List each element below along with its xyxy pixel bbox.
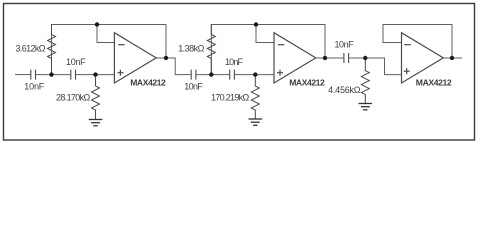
node C junction [209,72,213,76]
op-amp U1 [114,33,156,83]
svg-text:4.456kΩ: 4.456kΩ [328,85,361,95]
svg-text:3.612kΩ: 3.612kΩ [16,43,46,53]
capacitor C2 10nF [70,70,72,80]
svg-text:1.38kΩ: 1.38kΩ [178,44,204,54]
resistor R4 170.219k [251,75,259,119]
svg-text:170.219kΩ: 170.219kΩ [211,92,249,102]
junction U1 output [164,56,168,60]
wire C1 to C2 through node A [36,74,70,76]
wire U2 output to C5 [316,57,344,59]
ground for R4 [249,119,263,125]
resistor R2 28.170k [92,75,100,119]
resistor R1 3.612k [48,25,56,75]
wire top feedback stage 2 [211,25,325,75]
wire C4 to op-amp U2 + input [235,74,274,76]
junction U3 output [450,56,454,60]
junction top wire stage2 [254,22,258,26]
capacitor C5 10nF [343,53,345,63]
wire top feedback stage 1 [52,25,167,75]
node D junction [253,72,257,76]
wire drop to U2 - input [256,25,274,43]
svg-text:10nF: 10nF [24,81,45,91]
svg-text:MAX4212: MAX4212 [289,77,325,87]
ground for R5 [359,104,373,110]
svg-text:10nF: 10nF [335,40,355,50]
capacitor C3 10nF [190,70,192,80]
resistor R5 4.456k [361,58,369,103]
wire input [15,74,30,76]
capacitor C1 10nF [30,70,32,80]
op-amp U2 [274,33,316,83]
svg-text:MAX4212: MAX4212 [416,77,452,87]
wire drop to U1 - input [97,25,114,43]
svg-text:10nF: 10nF [66,57,86,67]
junction U2 output [323,56,327,60]
wire C5 to node F and down to U3 + input [349,58,401,75]
node B junction [93,72,97,76]
node F junction [363,56,367,60]
border frame [4,4,475,141]
wire C3 to C4 through node C [197,74,230,76]
node A junction [49,72,53,76]
svg-text:10nF: 10nF [184,81,203,91]
capacitor C4 10nF [229,70,231,80]
op-amp U3 [402,33,444,83]
wire C2 to op-amp U1 + input [76,74,114,76]
ground for R2 [89,120,103,126]
svg-text:10nF: 10nF [225,57,244,67]
wire U1 output to stage 2 [156,58,191,75]
resistor R3 1.38k [207,25,215,75]
svg-text:28.170kΩ: 28.170kΩ [56,92,90,102]
junction top wire stage1 [95,22,99,26]
wire top feedback stage 3 [383,25,452,59]
svg-text:MAX4212: MAX4212 [130,77,166,87]
wire U3 output stub [443,57,462,59]
